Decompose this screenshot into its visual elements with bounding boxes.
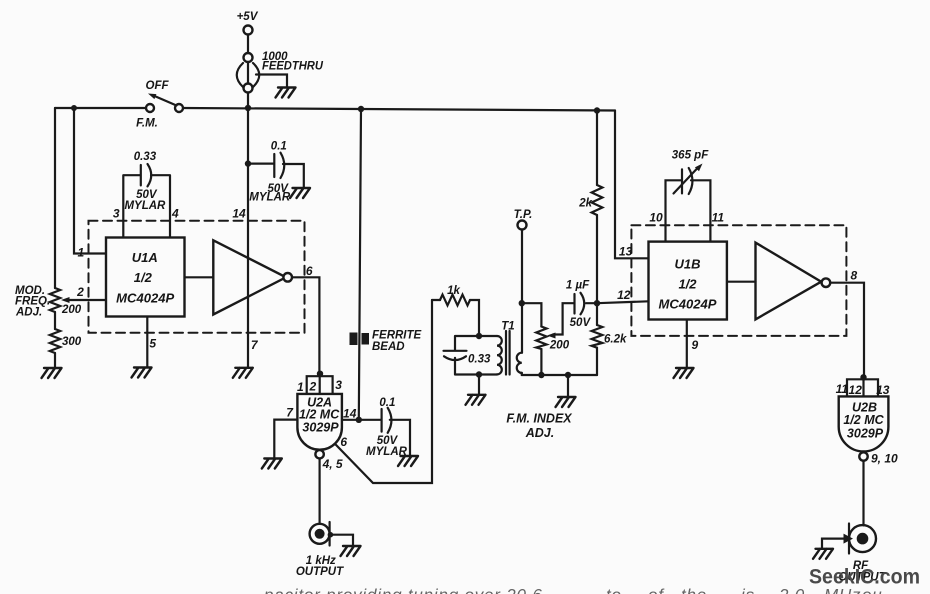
svg-text:2: 2 [76,285,84,299]
svg-text:+5V: +5V [237,11,259,23]
svg-text:3029P: 3029P [847,427,884,441]
svg-text:T.P.: T.P. [514,209,533,221]
svg-text:MYLAR: MYLAR [124,200,166,212]
svg-text:11: 11 [836,382,849,396]
svg-text:1: 1 [297,380,304,394]
svg-text:MC4024P: MC4024P [659,297,717,312]
svg-text:1/2: 1/2 [134,270,153,285]
svg-text:11: 11 [712,211,725,225]
svg-text:13: 13 [619,245,633,259]
svg-text:FERRITE: FERRITE [372,330,422,342]
svg-text:OFF: OFF [146,80,170,92]
svg-text:U1B: U1B [674,257,700,272]
svg-text:1: 1 [77,246,84,260]
svg-text:6: 6 [340,435,347,449]
svg-text:ADJ.: ADJ. [15,307,42,319]
svg-text:3: 3 [335,378,342,392]
svg-text:6.2k: 6.2k [604,334,627,346]
svg-text:1/2 MC: 1/2 MC [299,408,340,422]
svg-text:14: 14 [343,407,357,421]
svg-text:pacitor providing tuning over: pacitor providing tuning over 20.6 [263,586,543,594]
svg-text:the: the [681,586,707,594]
svg-text:FEEDTHRU: FEEDTHRU [262,61,324,73]
svg-text:BEAD: BEAD [372,341,405,353]
svg-text:9, 10: 9, 10 [871,452,898,466]
svg-text:9: 9 [692,338,699,352]
svg-text:6: 6 [306,264,313,278]
svg-text:3029P: 3029P [302,421,339,435]
svg-text:7: 7 [251,338,259,352]
svg-text:2.0: 2.0 [778,586,805,594]
svg-text:2k: 2k [578,198,592,210]
svg-text:50V: 50V [570,317,592,329]
svg-text:10: 10 [649,211,663,225]
svg-text:OUTPUT: OUTPUT [296,566,344,578]
svg-text:300: 300 [62,336,82,348]
svg-text:1 µF: 1 µF [566,280,590,292]
svg-text:365 pF: 365 pF [672,150,709,162]
svg-text:1/2: 1/2 [678,277,697,292]
svg-text:to: to [606,586,622,594]
svg-text:12: 12 [849,383,863,397]
svg-text:T1: T1 [501,321,514,333]
svg-text:1/2 MC: 1/2 MC [843,413,884,427]
svg-text:12: 12 [617,288,631,302]
svg-text:SeekIC.com: SeekIC.com [809,566,920,589]
svg-text:7: 7 [286,406,294,420]
svg-text:0.1: 0.1 [379,397,395,409]
svg-text:13: 13 [876,383,890,397]
svg-text:3: 3 [113,207,120,221]
svg-text:200: 200 [61,304,82,316]
svg-text:F.M. INDEX: F.M. INDEX [506,412,572,426]
svg-text:of: of [648,586,665,594]
svg-text:8: 8 [850,269,857,283]
svg-text:4: 4 [171,207,179,221]
svg-text:MYLAR: MYLAR [366,446,408,458]
svg-text:0.33: 0.33 [134,151,157,163]
svg-text:MC4024P: MC4024P [116,291,174,306]
svg-text:ADJ.: ADJ. [525,426,554,440]
svg-text:1k: 1k [447,285,460,297]
svg-text:4, 5: 4, 5 [322,457,343,471]
svg-text:F.M.: F.M. [136,118,158,130]
svg-text:200: 200 [549,340,570,352]
svg-text:MYLAR: MYLAR [249,191,291,203]
svg-text:U1A: U1A [132,250,158,265]
svg-text:14: 14 [232,207,246,221]
svg-text:0.1: 0.1 [271,141,287,153]
svg-text:5: 5 [149,337,156,351]
svg-text:0.33: 0.33 [468,354,491,366]
svg-text:is: is [741,586,755,594]
svg-text:2: 2 [309,380,317,394]
